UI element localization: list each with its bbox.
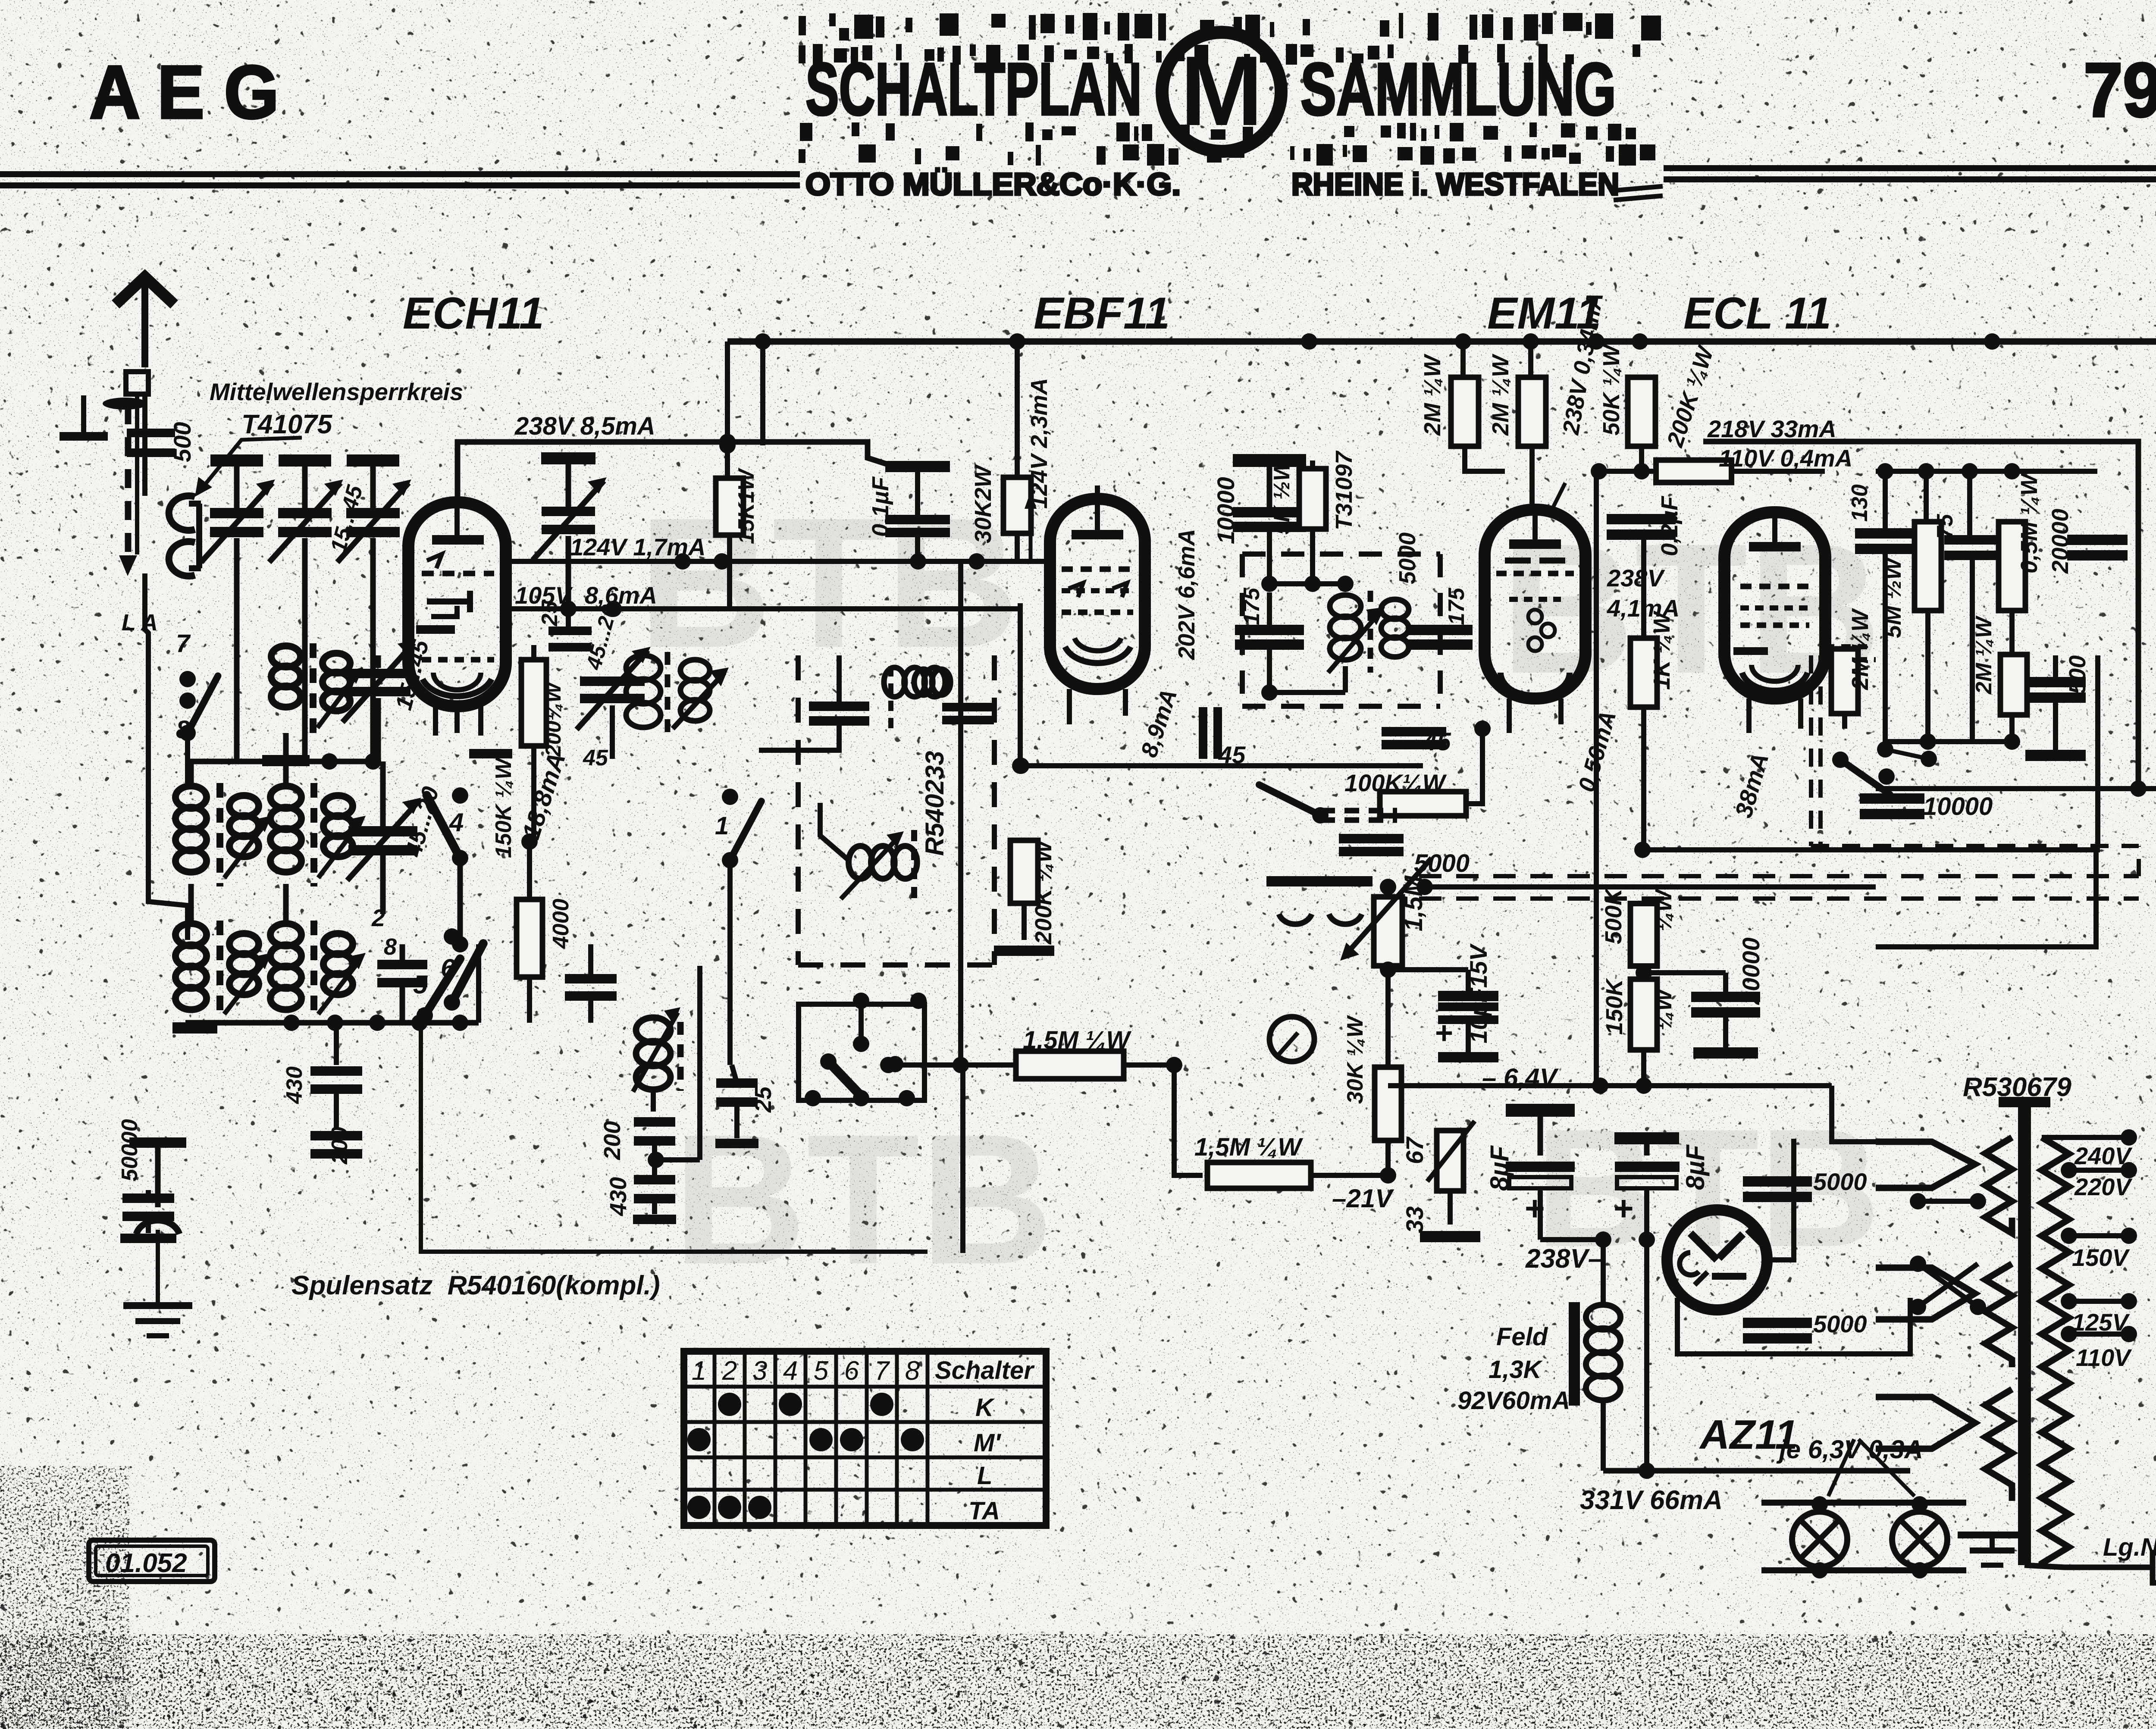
svg-text:67: 67	[1401, 1136, 1428, 1164]
resistor 75	[1915, 522, 1941, 611]
svg-text:45: 45	[1423, 728, 1451, 756]
svg-text:SAMMLUNG: SAMMLUNG	[1300, 48, 1616, 131]
svg-text:238V: 238V	[1607, 564, 1665, 592]
cap 5000 top	[1743, 1176, 1812, 1187]
secondary winding HT	[2042, 1137, 2069, 1565]
tone switch block	[799, 1004, 924, 1100]
resistor 2M second	[1528, 341, 1533, 378]
svg-text:45: 45	[583, 745, 608, 771]
resistor 2M first	[1460, 341, 1466, 378]
svg-text:7: 7	[176, 630, 191, 658]
IF1 coils upper	[809, 702, 869, 711]
svg-text:25: 25	[537, 601, 562, 626]
coil-set enclosure box	[421, 1009, 928, 1252]
svg-text:30K2W: 30K2W	[970, 464, 996, 543]
svg-text:50K ¼W: 50K ¼W	[1598, 343, 1624, 435]
wire y1776 EBF cathode	[1020, 763, 1423, 768]
IF2 dashed box	[1240, 554, 1245, 706]
tap 220V	[2061, 1162, 2077, 1178]
svg-text:SCHALTPLAN: SCHALTPLAN	[805, 48, 1142, 131]
svg-text:25: 25	[750, 1086, 776, 1113]
cap 45 det	[1382, 727, 1446, 736]
svg-text:430: 430	[282, 1066, 307, 1104]
lamp leader lines	[1828, 1439, 1854, 1496]
svg-text:K: K	[975, 1394, 995, 1422]
wire to second 1,5M	[1174, 1065, 1203, 1175]
svg-text:110V 0,4mA: 110V 0,4mA	[1719, 445, 1852, 472]
cap 10000 IF2	[1233, 454, 1306, 467]
coil group osc2	[270, 924, 301, 946]
cap 75 right	[1944, 535, 2000, 545]
osc coil pair ECH	[626, 655, 661, 680]
fb box outline	[2095, 655, 2100, 846]
header noisy ornament row top	[799, 13, 1661, 41]
tube ECH11	[408, 502, 506, 706]
AZ11 anode strokes	[1690, 1233, 1717, 1260]
ECL11 grid dashes right	[1825, 644, 1867, 649]
switch fb	[1832, 752, 1849, 768]
wire 238V rail	[458, 442, 889, 502]
svg-text:238V–: 238V–	[1525, 1244, 1603, 1274]
detector jack hooks	[1266, 876, 1322, 886]
EM11 bottom leads	[1507, 698, 1512, 733]
svg-text:105V 8,6mA: 105V 8,6mA	[515, 582, 657, 609]
wire det to EM	[1482, 707, 1483, 729]
tap 125V	[2061, 1293, 2077, 1309]
coil group LW	[175, 924, 207, 946]
wire y2518 to transformer	[1832, 1086, 1876, 1142]
resistor 5K 1/2W	[1299, 469, 1326, 529]
svg-text:1: 1	[692, 1356, 706, 1386]
gnd bar LW	[172, 1022, 217, 1034]
ECH11 bottom leads	[433, 706, 438, 736]
coil pair top mid	[271, 646, 301, 667]
svg-text:220V: 220V	[2074, 1173, 2133, 1200]
dial lamp 1	[1792, 1512, 1847, 1567]
tap 110V	[2061, 1326, 2077, 1342]
header noisy ornament row 4	[799, 144, 1655, 166]
stamp 01.052	[89, 1540, 215, 1582]
wire 5000 bus	[1425, 884, 1876, 890]
svg-text:200: 200	[599, 1121, 625, 1160]
wire padder to osc line	[656, 1157, 700, 1162]
svg-text:Lg.Nr.7298: Lg.Nr.7298	[2103, 1533, 2156, 1561]
watermark BTB 4	[1535, 1094, 1881, 1282]
svg-text:2: 2	[371, 904, 385, 931]
resistor 15K 1W	[725, 341, 730, 479]
bottom power bus 331V	[1603, 1468, 1910, 1474]
svg-text:5000: 5000	[1414, 849, 1470, 877]
svg-text:30K ¼W: 30K ¼W	[1343, 1015, 1368, 1104]
EM11 internals	[1509, 539, 1561, 549]
antenna dashed stem	[135, 394, 139, 554]
trimmer top mid	[346, 669, 411, 678]
svg-text:124V 2,3mA: 124V 2,3mA	[1026, 378, 1052, 509]
svg-text:2M ¼W: 2M ¼W	[1847, 608, 1873, 690]
wire AZ11 box	[1677, 1298, 1910, 1354]
double rule left segment	[0, 171, 800, 177]
resistor 30K 1/4W	[1375, 1067, 1401, 1140]
svg-text:150K: 150K	[1601, 977, 1627, 1035]
svg-text:T41075: T41075	[241, 410, 333, 439]
junction 238V rail x1687	[719, 437, 736, 454]
wire box bottom 2196	[1876, 850, 2096, 947]
wire grid y1093	[1599, 469, 1656, 474]
AZ11 leads	[1647, 1239, 1667, 1240]
leader arrow to sperrkreis	[199, 438, 302, 492]
svg-text:–21V: –21V	[1332, 1184, 1395, 1213]
header noisy ornament row 3	[800, 122, 1636, 141]
gnd bar top coils	[262, 755, 310, 766]
antenna arrow up	[141, 279, 148, 367]
svg-text:A E G: A E G	[89, 50, 279, 135]
svg-text:500: 500	[2065, 655, 2090, 694]
cap 500	[2025, 677, 2086, 687]
svg-text:Mittelwellensperrkreis: Mittelwellensperrkreis	[210, 378, 463, 405]
IF1 coil lower with arrow	[849, 846, 872, 879]
dashed link to pot	[1320, 808, 1397, 814]
svg-text:2M ¼W: 2M ¼W	[1488, 354, 1514, 436]
fb inner wires	[1885, 749, 1886, 759]
svg-text:2M ¼W: 2M ¼W	[1971, 615, 1996, 695]
wire fb bottom	[1885, 739, 2012, 744]
svg-text:130: 130	[1847, 484, 1872, 522]
dashed IF1 box R540233	[796, 655, 801, 965]
resistor 200K 1/4W mid	[1010, 840, 1038, 903]
wire to R540233 junction	[1018, 603, 1023, 766]
tube EBF11	[1050, 499, 1145, 689]
wire y1829 bus	[1876, 786, 2156, 791]
trimmer anode ECH	[541, 452, 595, 464]
dial lamp 2	[1892, 1512, 1947, 1567]
svg-text:OTTO MÜLLER&Co·K·G.: OTTO MÜLLER&Co·K·G.	[805, 167, 1181, 202]
svg-text:8µF: 8µF	[1485, 1145, 1514, 1191]
svg-text:202V 6,6mA: 202V 6,6mA	[1174, 529, 1200, 660]
logo M in circle	[1162, 32, 1281, 151]
rectifier heater winding	[1985, 1389, 2012, 1501]
svg-text:0,5M ¼W: 0,5M ¼W	[2016, 472, 2042, 573]
svg-text:TA: TA	[968, 1497, 1000, 1525]
cap 20000 fb	[2067, 535, 2128, 545]
wire vert x2228	[958, 561, 963, 1065]
svg-text:Schalter: Schalter	[935, 1356, 1035, 1384]
wire TA join	[1388, 1057, 1388, 1069]
svg-text:175: 175	[1444, 587, 1469, 625]
wire 218V box top	[1703, 442, 2138, 789]
svg-text:1,3K: 1,3K	[1489, 1356, 1543, 1384]
resistor 150K	[1630, 979, 1657, 1050]
svg-text:200K ¼W: 200K ¼W	[1031, 839, 1056, 945]
svg-text:5K ½W: 5K ½W	[1269, 458, 1294, 535]
resistor 200K 1/4W ECL	[1656, 460, 1732, 482]
dial lamps heater wires	[1761, 1500, 1966, 1506]
svg-text:5: 5	[413, 970, 428, 999]
svg-text:L: L	[977, 1462, 992, 1490]
tube AZ11 circle	[1667, 1210, 1767, 1310]
svg-text:50000: 50000	[117, 1119, 142, 1181]
svg-text:1: 1	[715, 812, 729, 840]
field coil	[1569, 1302, 1580, 1406]
svg-text:331V 66mA: 331V 66mA	[1580, 1485, 1723, 1515]
antenna body rod	[126, 372, 148, 394]
cap 5000 det	[1339, 834, 1404, 843]
dashed AF bus pair	[1419, 874, 2139, 878]
pickup TA circle	[1269, 1017, 1314, 1062]
svg-text:8µF: 8µF	[1681, 1144, 1710, 1190]
svg-text:5000: 5000	[1813, 1168, 1867, 1195]
tap 150V	[2061, 1228, 2077, 1244]
wire antenna to bank	[142, 393, 147, 496]
primary cross links	[1910, 1193, 1926, 1209]
svg-text:175: 175	[1239, 587, 1264, 625]
svg-text:M: M	[1180, 35, 1263, 146]
resistor 1,5M 1/4W first	[888, 1062, 1015, 1068]
wire EBF screen drop	[755, 333, 771, 350]
svg-text:33: 33	[1401, 1206, 1428, 1233]
resistor 1K 1/4W	[1641, 539, 1646, 638]
watermark BTB 3	[673, 1096, 1054, 1303]
svg-text:15K1W: 15K1W	[734, 468, 759, 544]
svg-text:5000: 5000	[1395, 532, 1420, 584]
svg-text:T31097: T31097	[1331, 450, 1357, 530]
svg-text:238V 8,5mA: 238V 8,5mA	[514, 412, 655, 440]
cap 130	[1855, 528, 1915, 539]
svg-text:1K ¼W: 1K ¼W	[1649, 611, 1675, 690]
wire anode up	[1703, 442, 1704, 470]
svg-text:5: 5	[814, 1356, 829, 1386]
svg-text:430: 430	[605, 1177, 631, 1216]
wire 124V bus	[500, 559, 1050, 564]
svg-text:2: 2	[722, 1356, 737, 1386]
cap 10000 fb	[1844, 789, 1845, 793]
dashed bus around ECL	[1809, 655, 1813, 846]
rule stub right of OTTO line	[1614, 186, 1663, 191]
resistor 200 1/4W	[531, 645, 536, 659]
ECH11 internals	[432, 535, 484, 545]
bottom AF bus	[1388, 1083, 1832, 1088]
svg-text:10000: 10000	[1923, 792, 1993, 821]
primary leads top	[1876, 1142, 1975, 1188]
junction 8uF	[1595, 1231, 1611, 1248]
ECL11 bottom leads	[1746, 698, 1752, 733]
svg-text:0,2µF: 0,2µF	[1657, 495, 1683, 556]
svg-text:¼W: ¼W	[1651, 888, 1677, 931]
svg-text:R540233: R540233	[920, 751, 949, 856]
svg-text:M′: M′	[974, 1429, 1001, 1457]
svg-text:500K: 500K	[1601, 887, 1626, 944]
heater earth	[1990, 1535, 1995, 1548]
svg-text:200¼W: 200¼W	[541, 681, 565, 757]
volume pot 1,5M	[1374, 897, 1402, 966]
svg-text:8: 8	[905, 1356, 920, 1386]
svg-text:218V 33mA: 218V 33mA	[1707, 415, 1836, 442]
watermark BTB 1	[638, 479, 1019, 686]
ECL11 internals	[1749, 542, 1801, 551]
svg-text:¼W: ¼W	[1651, 987, 1677, 1031]
svg-text:110V: 110V	[2076, 1344, 2132, 1371]
transformer core	[2018, 1104, 2031, 1565]
svg-text:5M ½W: 5M ½W	[1880, 556, 1906, 638]
svg-text:45: 45	[1218, 741, 1246, 768]
resistor 50K 1/4W	[1628, 377, 1655, 446]
cap 45 on wire	[1199, 707, 1207, 759]
svg-text:RHEINE i. WESTFALEN: RHEINE i. WESTFALEN	[1291, 167, 1619, 202]
top HT bus	[727, 338, 2156, 345]
earth electrode symbol	[129, 1137, 186, 1148]
cap 175 left	[1235, 625, 1304, 635]
svg-text:150V: 150V	[2072, 1244, 2130, 1271]
pot 67/33 hum	[1437, 1131, 1463, 1191]
sperrkreis coil T41075	[169, 496, 195, 576]
cap 50000 to ground	[146, 1190, 151, 1194]
svg-text:Feld: Feld	[1496, 1323, 1548, 1351]
cap 10uF 15V	[1388, 967, 1468, 972]
cap 5000 bottom	[1743, 1318, 1812, 1328]
svg-text:+: +	[1435, 1016, 1453, 1050]
primary winding top	[1985, 1137, 2012, 1233]
svg-text:2M ¼W: 2M ¼W	[1420, 354, 1445, 436]
svg-text:3: 3	[752, 1356, 767, 1386]
wire 38mA to box	[1642, 847, 2100, 852]
input trimmer 3	[347, 454, 399, 467]
resistor 2M 1/4W fb	[1831, 649, 1858, 714]
svg-text:92V60mA: 92V60mA	[1457, 1387, 1570, 1415]
cap 20000	[1644, 970, 1726, 975]
header noisy ornament row 2	[799, 44, 1640, 65]
cap 175 right	[1408, 625, 1473, 635]
svg-text:5000: 5000	[1813, 1310, 1867, 1337]
osc padder coil	[636, 1018, 671, 1043]
EBF11 top lead	[1095, 485, 1100, 499]
tone block top wires	[799, 1004, 961, 1005]
svg-text:0,1µF: 0,1µF	[868, 476, 893, 537]
resistor 30K2W	[1015, 341, 1020, 478]
tube EM11	[1485, 510, 1586, 698]
cap 430	[334, 1023, 339, 1065]
junction dots on bus	[1009, 333, 1025, 350]
IF1 box wires	[759, 723, 839, 750]
earth stub small	[81, 395, 86, 432]
coil group KW ant	[270, 786, 301, 808]
input trimmer 1	[210, 454, 263, 467]
resistor 1,5M 1/4W second	[1207, 1162, 1311, 1188]
svg-text:+: +	[1614, 1189, 1634, 1228]
cap 0,2uF	[1607, 514, 1676, 524]
junction bus right	[1984, 333, 2000, 350]
svg-text:10µF15V: 10µF15V	[1465, 943, 1492, 1043]
svg-text:4: 4	[783, 1356, 798, 1386]
svg-text:01.052: 01.052	[105, 1548, 187, 1578]
cap 500 antenna	[127, 429, 175, 437]
resistor 500K	[1630, 904, 1657, 966]
tap 240V	[2121, 1129, 2137, 1146]
svg-text:4000: 4000	[548, 899, 573, 949]
svg-text:20000: 20000	[1737, 937, 1764, 1005]
svg-text:8: 8	[384, 934, 397, 960]
trimmer mid	[348, 826, 417, 836]
cap 8uF first	[1506, 1104, 1575, 1117]
svg-text:500: 500	[169, 422, 196, 462]
svg-text:BTB: BTB	[673, 1096, 1054, 1303]
wire 105V bus	[502, 606, 1020, 611]
svg-text:ECH11: ECH11	[403, 288, 544, 338]
svg-text:ECL 11: ECL 11	[1683, 288, 1831, 338]
wire EM cathode long	[1596, 341, 1597, 471]
wire bus y2518	[1388, 1086, 1388, 1175]
svg-text:7: 7	[874, 1356, 890, 1386]
gnd ECH cathode	[469, 749, 512, 758]
wire bus y1766	[188, 759, 379, 764]
EBF11 internals	[1072, 530, 1123, 539]
double rule right segment	[1664, 165, 2156, 171]
watermark BTB 2	[1501, 505, 1882, 712]
svg-text:79 WK: 79 WK	[2084, 47, 2156, 133]
coil group MW ant	[175, 786, 207, 808]
switch table	[684, 1351, 1046, 1525]
feedback network rail	[1876, 469, 2012, 474]
svg-text:150K ¼W: 150K ¼W	[491, 757, 516, 858]
svg-text:EBF11: EBF11	[1034, 288, 1170, 338]
EBF11 bottom leads	[1067, 689, 1072, 724]
resistor 100K 1/4W	[1380, 792, 1466, 816]
svg-text:Spulensatz R540160(kompl.): Spulensatz R540160(kompl.)	[291, 1271, 660, 1300]
ground bus tuner	[185, 1020, 479, 1026]
svg-text:1,5M ¼W: 1,5M ¼W	[1194, 1133, 1303, 1161]
heater winding mid	[1985, 1264, 2012, 1367]
svg-text:6: 6	[844, 1356, 859, 1386]
cap 8uF second	[1614, 1132, 1679, 1144]
svg-text:L A: L A	[122, 610, 158, 636]
resistor 0,5M 1/4W	[1999, 522, 2025, 611]
tube ECL11	[1724, 512, 1825, 698]
IF2 coil pair	[1330, 595, 1361, 617]
fuse	[2064, 1535, 2065, 1567]
input trimmer 2	[279, 454, 331, 467]
wire EM grid from IF2	[1395, 660, 1482, 724]
resistor 2M fb2	[2000, 655, 2027, 715]
cap 25 tone	[812, 1100, 813, 1104]
